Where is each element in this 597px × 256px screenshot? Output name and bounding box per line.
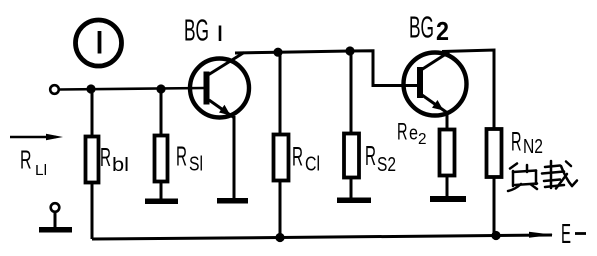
svg-text:e: e (409, 123, 418, 145)
svg-text:R: R (292, 142, 303, 172)
svg-text:R: R (20, 145, 32, 175)
svg-text:Cl: Cl (305, 154, 320, 176)
svg-text:BG: BG (184, 13, 209, 48)
svg-text:bl: bl (112, 154, 129, 176)
svg-text:R: R (511, 127, 522, 157)
svg-text:Sl: Sl (189, 154, 203, 176)
svg-text:R: R (176, 141, 187, 172)
svg-text:2: 2 (436, 16, 449, 46)
svg-text:Ll: Ll (35, 162, 47, 179)
svg-text:R: R (100, 142, 111, 172)
svg-text:E: E (561, 218, 571, 249)
svg-text:N2: N2 (523, 136, 543, 158)
svg-text:R: R (397, 119, 408, 146)
svg-text:2: 2 (418, 131, 427, 148)
svg-text:BG: BG (409, 10, 434, 45)
svg-text:S2: S2 (377, 154, 396, 176)
svg-text:R: R (365, 140, 376, 171)
